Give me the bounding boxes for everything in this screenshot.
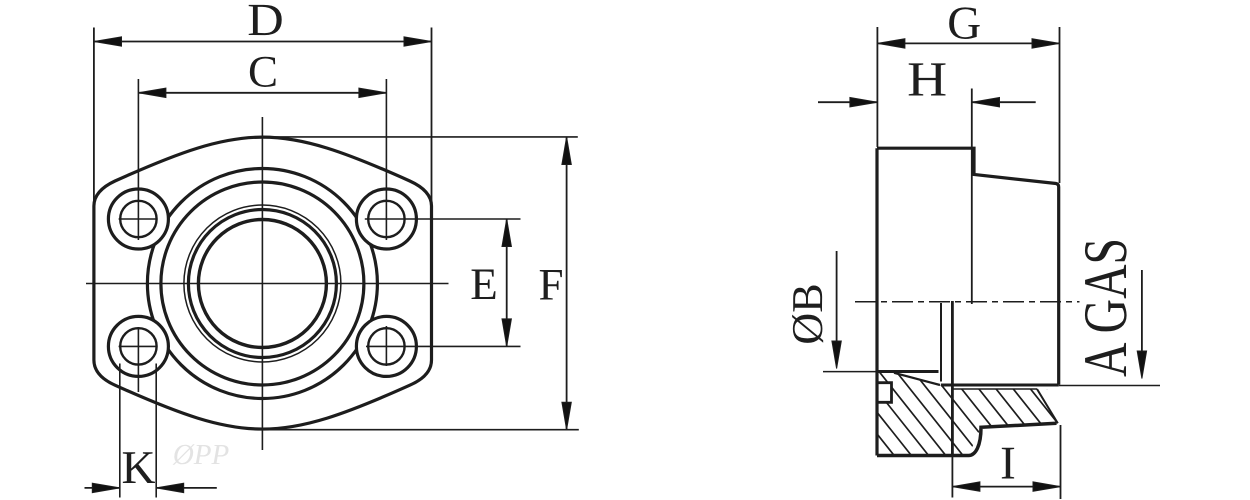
svg-text:D: D [247, 0, 284, 45]
svg-text:I: I [1000, 438, 1016, 490]
svg-text:ØPP: ØPP [172, 439, 229, 471]
svg-text:E: E [470, 259, 498, 309]
svg-text:H: H [907, 52, 947, 107]
svg-text:C: C [248, 47, 278, 97]
svg-text:A GAS: A GAS [1072, 238, 1140, 377]
svg-text:F: F [538, 259, 563, 309]
svg-text:G: G [947, 0, 981, 50]
svg-text:K: K [122, 442, 156, 494]
svg-text:ØB: ØB [783, 283, 832, 344]
